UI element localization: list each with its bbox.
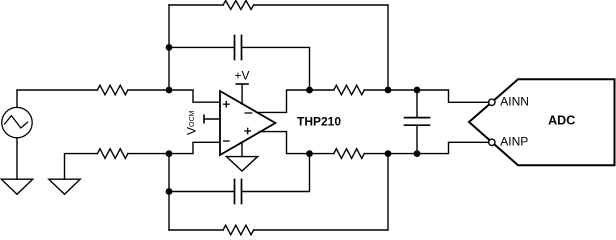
node junction (top rail cap row tap) xyxy=(306,87,313,94)
node junction (top cap tap) xyxy=(166,44,173,51)
wire source top to input resistor xyxy=(17,90,97,107)
node junction (bottom rail feedback tap) xyxy=(385,150,392,157)
op-amp - output label xyxy=(245,112,252,114)
svg-text:THP210: THP210 xyxy=(297,115,341,129)
wire top rail to AINN xyxy=(364,90,489,102)
pin AINN circle xyxy=(489,99,495,105)
node junction (bottom rail cap row tap) xyxy=(306,150,313,157)
op-amp + input label xyxy=(224,102,229,107)
wire left vertical feedback tap (top) xyxy=(168,5,170,90)
resistor (bottom feedback) xyxy=(223,225,254,235)
ADC block outline xyxy=(469,79,615,165)
voltage source V1 (AC source) xyxy=(2,107,32,137)
wire amp - output to top rail xyxy=(257,90,334,112)
resistor (bottom input) xyxy=(97,149,128,159)
node junction (top input) xyxy=(166,87,173,94)
capacitor (top feedback) xyxy=(235,36,242,60)
wire bottom input resistor to amp - input xyxy=(128,142,220,153)
wire bottom feedback loop left xyxy=(169,229,223,231)
node junction (top rail feedback tap) xyxy=(385,87,392,94)
wire bottom cap row right xyxy=(242,154,310,192)
ground (bottom input) xyxy=(49,179,80,194)
wire source bottom to ground xyxy=(16,138,18,179)
svg-text:ADC: ADC xyxy=(548,114,575,128)
op-amp + output label xyxy=(245,128,250,133)
node junction (bottom input) xyxy=(166,150,173,157)
wire top feedback loop right xyxy=(254,5,388,90)
wire amp + output to bottom rail xyxy=(260,132,334,154)
resistor (top feedback) xyxy=(223,1,254,10)
wire ground to bottom input resistor xyxy=(65,154,98,180)
wire top cap row right xyxy=(242,47,310,90)
wire left vertical feedback tap (bottom) xyxy=(168,154,170,230)
wire top cap row left xyxy=(169,46,235,48)
svg-text:+V: +V xyxy=(234,68,249,82)
pin AINP circle xyxy=(489,139,495,145)
power +V symbol xyxy=(236,84,248,104)
resistor (top input) xyxy=(97,85,128,95)
node junction (bottom rail load cap tap) xyxy=(414,150,421,157)
node VOCM pin xyxy=(204,115,220,123)
wire bottom cap row left xyxy=(169,191,235,193)
capacitor (differential load) xyxy=(405,90,430,154)
svg-text:AINP: AINP xyxy=(500,134,528,148)
wire top input resistor to amp + input xyxy=(128,90,220,102)
node junction (top rail load cap tap) xyxy=(414,87,421,94)
node junction (bottom cap tap) xyxy=(166,188,173,195)
wire bottom rail to AINP xyxy=(364,142,489,153)
svg-text:AINN: AINN xyxy=(500,94,529,108)
wire top feedback loop left xyxy=(169,4,223,6)
ground (below op-amp) xyxy=(226,142,257,171)
op-amp - input label xyxy=(224,140,229,142)
ground (below source) xyxy=(1,179,32,194)
resistor (top output) xyxy=(334,85,364,95)
resistor (bottom output) xyxy=(334,149,364,159)
wire bottom feedback loop right xyxy=(254,154,388,230)
op-amp U1 THP210 triangle xyxy=(220,91,275,155)
capacitor (bottom feedback) xyxy=(235,180,242,204)
